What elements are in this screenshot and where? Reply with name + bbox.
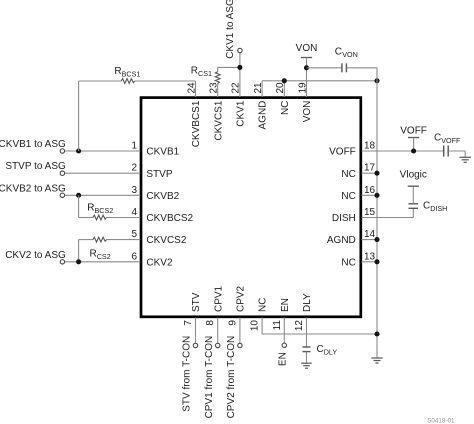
svg-text:Vlogic: Vlogic xyxy=(400,169,427,180)
svg-text:CKV2 to ASG: CKV2 to ASG xyxy=(5,250,66,261)
svg-text:R: R xyxy=(90,249,97,260)
svg-text:22: 22 xyxy=(231,82,242,94)
svg-text:VON: VON xyxy=(342,50,358,59)
node junction pin13 xyxy=(374,259,379,264)
svg-text:CPV1: CPV1 xyxy=(213,285,224,312)
svg-text:EN: EN xyxy=(278,352,289,366)
terminal CPV2 from T-CON xyxy=(238,343,242,347)
svg-text:AGND: AGND xyxy=(258,101,269,130)
svg-text:CPV1 from T-CON: CPV1 from T-CON xyxy=(204,336,215,419)
svg-text:DLY: DLY xyxy=(302,293,313,312)
ground rail xyxy=(371,358,382,363)
svg-text:DISH: DISH xyxy=(332,213,356,224)
wire pin6 CKV2 xyxy=(65,261,141,263)
svg-text:R: R xyxy=(191,66,198,77)
svg-text:2: 2 xyxy=(131,163,137,174)
svg-text:VON: VON xyxy=(296,43,318,54)
wire pin7 STV xyxy=(195,318,197,344)
svg-text:STV from T-CON: STV from T-CON xyxy=(182,336,193,412)
svg-text:3: 3 xyxy=(131,185,137,196)
svg-text:DLY: DLY xyxy=(324,347,338,356)
svg-text:R: R xyxy=(87,203,94,214)
wire pin16 NC xyxy=(362,194,378,196)
node junction VOFF xyxy=(411,148,416,153)
wire pin9 CPV2 xyxy=(239,318,241,344)
wire pin13 NC xyxy=(362,261,378,263)
node junction pin20 xyxy=(282,78,287,83)
svg-text:13: 13 xyxy=(364,251,376,262)
terminal STVP to ASG xyxy=(60,171,64,175)
svg-text:C: C xyxy=(423,200,430,211)
svg-text:AGND: AGND xyxy=(327,235,356,246)
svg-text:NC: NC xyxy=(341,191,355,202)
capacitor CVON xyxy=(307,67,342,69)
svg-text:12: 12 xyxy=(294,320,305,332)
terminal CKVB1 to ASG xyxy=(60,149,64,153)
node junction VON xyxy=(304,65,309,70)
svg-text:CPV2: CPV2 xyxy=(236,285,247,312)
svg-text:CKVB2: CKVB2 xyxy=(146,191,179,202)
svg-text:CS1: CS1 xyxy=(198,69,212,78)
wire pin11 EN xyxy=(283,318,285,344)
wire pin8 CPV1 xyxy=(217,318,219,344)
svg-text:CKVB1 to ASG: CKVB1 to ASG xyxy=(0,139,66,150)
terminal STV from T-CON xyxy=(193,343,197,347)
svg-text:DISH: DISH xyxy=(430,204,447,213)
svg-text:4: 4 xyxy=(131,207,137,218)
svg-text:CPV2 from T-CON: CPV2 from T-CON xyxy=(226,336,237,419)
node junction pin3 xyxy=(76,193,81,198)
power terminal VON xyxy=(301,57,312,59)
ground CVOFF xyxy=(459,157,471,162)
svg-text:NC: NC xyxy=(341,169,355,180)
svg-text:NC: NC xyxy=(258,298,269,312)
svg-text:EN: EN xyxy=(280,298,291,312)
svg-text:CKVCS2: CKVCS2 xyxy=(146,235,186,246)
svg-text:21: 21 xyxy=(253,82,264,94)
wire pin1 CKVB1 xyxy=(65,150,141,152)
svg-text:CS2: CS2 xyxy=(97,252,111,261)
terminal CPV1 from T-CON xyxy=(216,343,220,347)
terminal CKV1 to ASG xyxy=(238,48,242,52)
svg-text:CKVB2 to ASG: CKVB2 to ASG xyxy=(0,183,66,194)
resistor RBCS2 xyxy=(79,217,93,219)
terminal EN xyxy=(282,343,286,347)
svg-text:C: C xyxy=(317,344,324,355)
wire RCS2 to pin6 xyxy=(78,240,80,262)
svg-text:CKVB1: CKVB1 xyxy=(146,147,179,158)
svg-text:CKV1 to ASG: CKV1 to ASG xyxy=(225,0,236,59)
wire pin3 CKVB2 xyxy=(65,194,141,196)
svg-text:NC: NC xyxy=(280,101,291,115)
node junction rail top xyxy=(374,78,379,83)
svg-text:R: R xyxy=(114,66,121,77)
svg-text:8: 8 xyxy=(205,320,216,326)
svg-text:23: 23 xyxy=(209,82,220,94)
svg-text:STVP to ASG: STVP to ASG xyxy=(5,161,66,172)
node junction pin14 xyxy=(374,237,379,242)
terminal CKVB2 to ASG xyxy=(60,193,64,197)
terminal CKV2 to ASG xyxy=(60,260,64,264)
capacitor CVOFF xyxy=(443,146,445,157)
svg-text:VOFF: VOFF xyxy=(329,147,356,158)
svg-text:20: 20 xyxy=(275,82,286,94)
svg-text:14: 14 xyxy=(364,229,376,240)
node junction pin17 xyxy=(374,171,379,176)
svg-text:16: 16 xyxy=(364,185,376,196)
svg-text:6: 6 xyxy=(131,251,137,262)
svg-text:CKVBCS2: CKVBCS2 xyxy=(146,213,193,224)
wire pin2 STVP xyxy=(65,172,141,174)
node junction pin1 xyxy=(76,148,81,153)
wire pin15 DISH xyxy=(362,217,414,219)
wire ground rail xyxy=(376,68,378,358)
capacitor CDISH xyxy=(409,207,419,209)
svg-text:19: 19 xyxy=(297,82,308,94)
svg-text:7: 7 xyxy=(183,320,194,326)
svg-text:CKVCS1: CKVCS1 xyxy=(213,100,224,140)
wire pin18 VOFF xyxy=(362,150,444,152)
svg-text:17: 17 xyxy=(364,163,376,174)
wire AGND NC to ground rail xyxy=(262,80,377,82)
svg-text:S0418-01: S0418-01 xyxy=(427,417,455,424)
svg-text:9: 9 xyxy=(227,320,238,326)
resistor RBCS1 xyxy=(78,81,80,151)
wire pin12 DLY xyxy=(306,318,308,347)
svg-text:11: 11 xyxy=(272,320,283,331)
svg-text:5: 5 xyxy=(131,229,137,240)
svg-text:CKV2: CKV2 xyxy=(146,257,173,268)
svg-text:1: 1 xyxy=(131,141,137,152)
svg-text:STV: STV xyxy=(191,292,202,312)
power terminal VOFF xyxy=(408,137,419,139)
ground CDLY xyxy=(301,363,312,368)
svg-text:18: 18 xyxy=(364,141,376,152)
node junction pin6 xyxy=(76,259,81,264)
power terminal Vlogic xyxy=(408,185,419,187)
svg-text:VOFF: VOFF xyxy=(400,126,427,137)
wire pin3 to RBCS2 xyxy=(78,195,80,217)
svg-text:VON: VON xyxy=(302,101,313,123)
svg-text:10: 10 xyxy=(250,320,261,332)
wire pin17 NC xyxy=(362,172,378,174)
svg-text:STVP: STVP xyxy=(146,169,172,180)
op-amp U1 IC body 24-pin xyxy=(141,98,361,317)
wire pin10 NC to rail xyxy=(261,318,263,335)
node junction pin22 xyxy=(237,65,242,70)
svg-text:VOFF: VOFF xyxy=(441,136,461,145)
svg-text:15: 15 xyxy=(364,207,376,218)
node junction rail bottom xyxy=(374,331,379,336)
svg-text:BCS1: BCS1 xyxy=(122,70,141,79)
node junction pin16 xyxy=(374,193,379,198)
svg-text:C: C xyxy=(335,47,342,58)
capacitor CDLY xyxy=(303,346,311,348)
svg-text:C: C xyxy=(434,133,441,144)
svg-text:CKVBCS1: CKVBCS1 xyxy=(191,100,202,147)
svg-text:24: 24 xyxy=(186,82,197,94)
svg-text:NC: NC xyxy=(341,257,355,268)
svg-text:CKV1: CKV1 xyxy=(236,100,247,127)
resistor RCS1 xyxy=(217,67,219,71)
svg-text:BCS2: BCS2 xyxy=(95,206,114,215)
wire pin14 AGND xyxy=(362,239,378,241)
resistor RCS2 xyxy=(79,239,93,241)
